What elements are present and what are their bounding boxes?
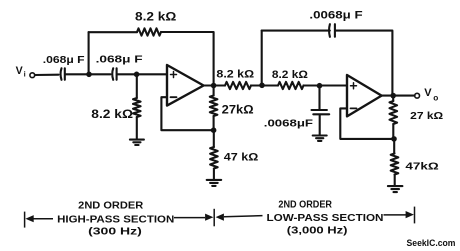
arrowhead left-pointing at left bar [25, 215, 33, 222]
svg-text:.068μ F: .068μ F [43, 55, 85, 66]
svg-text:HIGH-PASS SECTION: HIGH-PASS SECTION [57, 214, 174, 225]
wire U2 output to terminal [382, 95, 415, 97]
svg-text:2ND ORDER: 2ND ORDER [278, 199, 332, 210]
resistor 47k stage2 [391, 154, 399, 175]
resistor 47k stage1 [210, 147, 218, 169]
capacitor C1 .068uF [59, 68, 62, 80]
wire top feedback right [161, 32, 214, 85]
svg-text:27kΩ: 27kΩ [222, 103, 254, 117]
wire C2 to node B1 and op-amp U1 + input [117, 73, 167, 75]
left section line right [174, 217, 205, 219]
wire U2 inverting feedback [340, 108, 394, 138]
wire to node A2 [251, 84, 278, 86]
wire top feedback left [89, 31, 137, 33]
node divider stage2 dot [391, 136, 397, 142]
resistor 27k stage2 [390, 101, 398, 124]
wire node B1 down to R 8.2k [136, 74, 138, 98]
wire U1 output to node [204, 84, 225, 86]
capacitor C2 .068uF [111, 68, 114, 80]
resistor series 8.2k first [225, 82, 251, 89]
svg-text:.068μ F: .068μ F [96, 55, 143, 66]
wire node to 47k stage2 [393, 139, 395, 154]
wire U2 output node down to 27k [392, 96, 394, 101]
node divider stage1 dot [211, 127, 217, 133]
svg-text:27 kΩ: 27 kΩ [410, 111, 443, 122]
svg-text:V: V [16, 65, 23, 77]
wire C1 to node A1 [65, 73, 89, 75]
svg-text:47kΩ: 47kΩ [405, 162, 438, 173]
node output U1 dot [211, 83, 217, 89]
ground stage1 divider [207, 180, 222, 186]
node output U2 dot [390, 93, 396, 99]
wire node to 47k [213, 130, 215, 147]
arrowhead left-pointing at middle bar [216, 214, 224, 221]
wire U1 inverting feedback [161, 97, 213, 130]
svg-text:o: o [433, 93, 438, 103]
node A1 junction dot [86, 72, 92, 78]
wire node A1 up to feedback resistor [88, 32, 90, 74]
svg-text:(300 Hᴢ): (300 Hᴢ) [88, 227, 142, 238]
resistor series 8.2k second [278, 82, 304, 89]
svg-text:.0068μF: .0068μF [264, 119, 313, 130]
node B2 junction dot [317, 83, 323, 89]
input terminal Vi [30, 73, 35, 78]
left section line left [33, 218, 53, 220]
left section boundary bar [24, 212, 26, 228]
svg-text:8.2 kΩ: 8.2 kΩ [272, 69, 308, 81]
capacitor .0068uF shunt [312, 109, 327, 111]
wire R 8.2k to ground [136, 117, 138, 139]
node A2 junction dot [259, 83, 265, 89]
svg-text:8.2 kΩ: 8.2 kΩ [216, 69, 254, 81]
arrowhead right-pointing at middle bar [205, 214, 213, 221]
right section line left [224, 216, 263, 217]
op-amp U1 [167, 65, 204, 106]
ground stage2 divider [388, 186, 403, 192]
node B1 junction dot [134, 72, 140, 78]
wire 47k to ground stage2 [394, 175, 396, 186]
resistor 27k stage1 [210, 96, 218, 117]
ground below shunt cap [313, 136, 327, 141]
ground below 8.2k [130, 140, 144, 145]
svg-text:8.2 kΩ: 8.2 kΩ [91, 107, 133, 121]
wire 27k to node C1j [213, 116, 215, 130]
svg-text:.0068μ F: .0068μ F [309, 9, 363, 21]
wire node B2 down to cap [318, 86, 320, 110]
op-amp U2 [347, 75, 382, 116]
svg-text:i: i [24, 69, 26, 78]
arrowhead right-pointing at right bar [406, 211, 414, 218]
right section boundary bar [414, 207, 416, 224]
svg-text:LOW-PASS SECTION: LOW-PASS SECTION [267, 213, 384, 224]
wire node A1 to C2 [89, 73, 111, 75]
svg-text:SeekIC.com: SeekIC.com [407, 238, 456, 248]
resistor 8.2k to ground (shunt) [133, 98, 141, 117]
middle section boundary bar [213, 209, 215, 227]
wire to node B2 and op-amp U2 + input [304, 84, 348, 86]
wire cap to ground [319, 115, 321, 136]
resistor R feedback 8.2k (top) [137, 28, 161, 35]
svg-text:47 kΩ: 47 kΩ [224, 152, 259, 164]
right section line right [384, 214, 407, 216]
wire node A2 up to feedback cap [261, 31, 263, 86]
wire input to C1 [35, 74, 59, 76]
wire 47k to ground [213, 169, 215, 180]
svg-text:V: V [424, 87, 432, 99]
wire top feedback cap right [335, 31, 392, 96]
wire U1 output node down to 27k [213, 86, 215, 96]
wire 27k to node divider stage2 [392, 124, 394, 139]
capacitor C feedback .0068uF [328, 24, 331, 37]
wire top feedback cap left [262, 30, 330, 32]
svg-text:8.2 kΩ: 8.2 kΩ [135, 10, 176, 23]
svg-text:(3,000 Hᴢ): (3,000 Hᴢ) [287, 226, 348, 237]
svg-text:2ND ORDER: 2ND ORDER [78, 200, 143, 211]
output terminal Vo [415, 93, 420, 98]
